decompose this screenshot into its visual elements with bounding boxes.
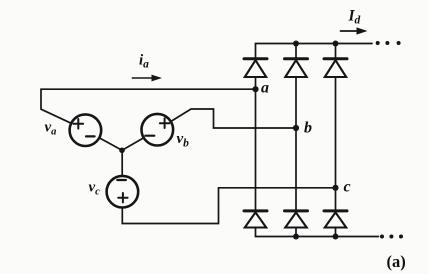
leg 3 vertical wire (middle) [335, 77, 337, 210]
neutral junction node [119, 148, 125, 154]
bottom dc rail [256, 236, 379, 238]
wire phase a [41, 89, 256, 123]
voltage source vb [142, 114, 174, 146]
diode bottom leg2 [285, 211, 308, 228]
voltage source va [70, 114, 102, 146]
top rail ellipsis dots [376, 41, 401, 45]
wire vb to neutral [122, 138, 143, 150]
bottom rail junction dot leg2 [293, 234, 299, 240]
arrow Id [341, 30, 361, 32]
node a [252, 86, 258, 92]
leg 1 vertical wire (middle) [255, 77, 257, 210]
leg 2 vertical wire (bottom) [295, 228, 297, 237]
leg 3 vertical wire (top) [335, 44, 337, 58]
node b [293, 125, 299, 131]
wire phase b [172, 109, 296, 128]
svg-text:a: a [261, 79, 269, 96]
node c [332, 185, 338, 191]
diode top leg2 [285, 59, 308, 77]
leg 1 vertical wire (bottom) [255, 228, 257, 237]
diode bottom leg1 [244, 211, 267, 228]
leg 1 vertical wire (top) [255, 44, 257, 58]
bottom rail junction dot leg3 [333, 234, 339, 240]
diode top leg1 [244, 59, 267, 77]
svg-text:va: va [45, 120, 57, 138]
leg 2 vertical wire (middle) [295, 77, 297, 210]
top rail junction dot leg3 [333, 41, 339, 47]
svg-text:ia: ia [139, 53, 149, 71]
voltage source vc [107, 176, 139, 208]
svg-text:vb: vb [177, 131, 190, 150]
svg-text:Id: Id [348, 8, 361, 27]
bottom rail ellipsis dots [380, 235, 403, 239]
diode bottom leg3 [324, 211, 347, 228]
leg 3 vertical wire (bottom) [335, 228, 337, 237]
top rail junction dot leg2 [293, 41, 299, 47]
svg-text:vc: vc [89, 179, 101, 197]
wire vc to neutral [121, 150, 123, 176]
diode top leg3 [324, 59, 347, 77]
leg 2 vertical wire (top) [295, 44, 297, 58]
svg-text:c: c [344, 179, 351, 196]
wire va to neutral [100, 138, 122, 150]
wire phase c [122, 188, 335, 224]
arrow ia [132, 77, 156, 79]
svg-text:b: b [304, 120, 312, 137]
top dc rail [256, 43, 373, 45]
svg-text:(a): (a) [387, 252, 406, 271]
